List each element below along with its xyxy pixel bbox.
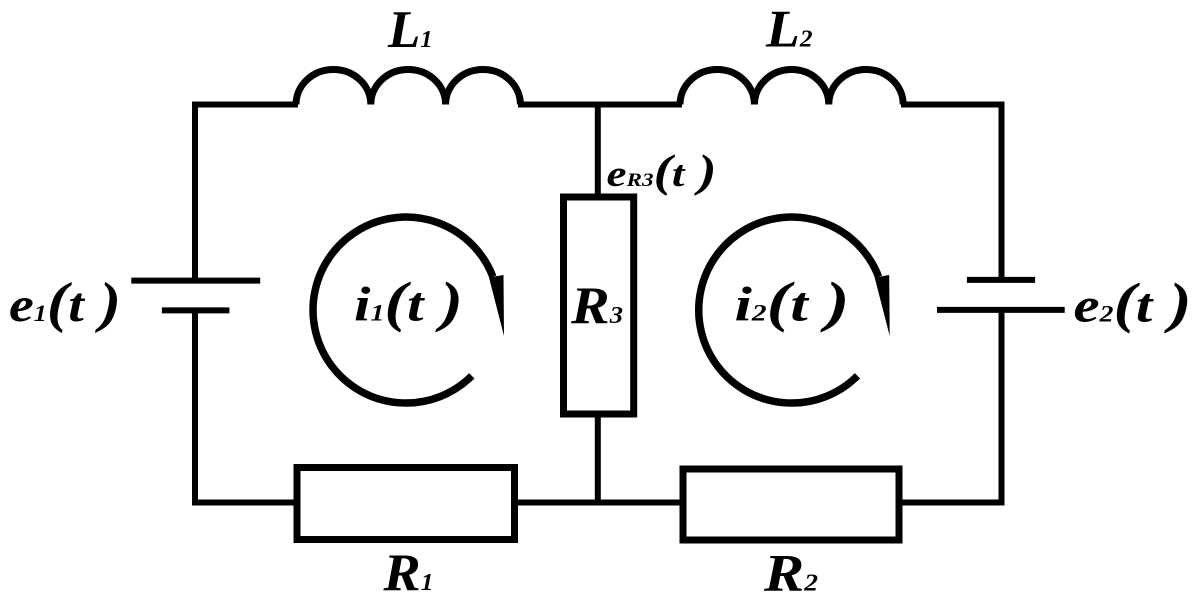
- wire middle vertical lower (R3 to bottom node): [595, 414, 601, 506]
- svg-text:eR3(t ): eR3(t ): [607, 146, 717, 196]
- svg-text:i1(t ): i1(t ): [354, 272, 463, 334]
- wire left vertical upper (corner to battery E1): [192, 102, 198, 284]
- svg-text:e1(t ): e1(t ): [9, 272, 121, 334]
- battery E1 long plate: [131, 278, 260, 284]
- mesh current loop arrow i2 (arrowhead): [875, 275, 890, 336]
- inductor L1: [296, 69, 520, 104]
- mesh current loop arrow i1 (arrowhead): [489, 275, 504, 336]
- resistor R1 (box): [297, 468, 515, 540]
- mesh current loop arrow i1 (arc): [313, 217, 493, 403]
- wire top-middle segment (L1 to L2, across node): [518, 102, 682, 108]
- wire right vertical lower (battery E2 to bottom corner): [999, 307, 1005, 506]
- wire bottom-left segment (left corner to R1): [192, 500, 297, 506]
- resistor R3 (box): [564, 197, 634, 414]
- inductor L2: [680, 69, 903, 104]
- svg-text:i2(t ): i2(t ): [735, 272, 850, 334]
- wire bottom-right segment (R2 to right corner): [900, 500, 1005, 506]
- wire right vertical upper (corner to battery E2): [999, 102, 1005, 283]
- wire middle vertical upper (top node to R3): [595, 102, 601, 198]
- svg-text:e2(t ): e2(t ): [1074, 273, 1192, 335]
- battery E2 short plate: [967, 277, 1035, 283]
- wire bottom-middle segment (R1 to R2 across node): [516, 500, 681, 506]
- wire top-left segment (left corner to L1): [192, 102, 298, 108]
- mesh current loop arrow i2 (arc): [699, 217, 879, 403]
- wire left vertical lower (battery E1 to bottom corner): [192, 308, 198, 506]
- resistor R2 (box): [683, 469, 899, 540]
- battery E1 short plate: [162, 307, 230, 313]
- battery E2 long plate: [937, 307, 1065, 313]
- wire top-right segment (L2 to right corner): [901, 102, 1005, 108]
